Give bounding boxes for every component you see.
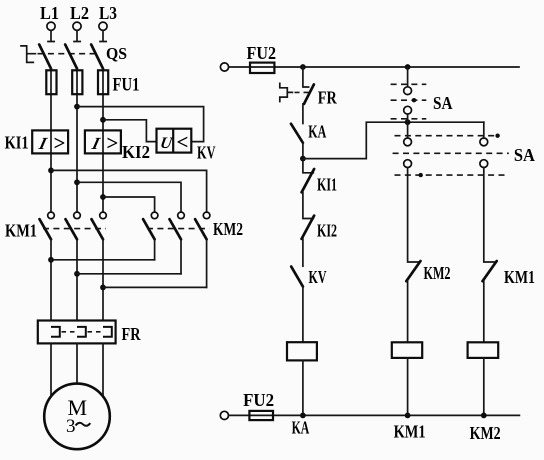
wire SA pole 2 to KM1 contact [484,168,497,263]
wire FR to motor phase 2 [76,343,78,383]
junction merge phase 1 [48,257,54,263]
svg-text:KM2: KM2 [470,423,501,443]
coil KM1 [392,342,422,358]
wire L2 terminal to QS pole 2 [74,30,80,41]
FR heater element 3 [103,327,112,337]
svg-text:KA: KA [292,418,310,438]
svg-text:SA: SA [433,93,453,113]
contactor KM1 pole 3 circle [100,212,107,219]
fuse FU1 pole 1 [46,70,56,94]
thermal relay FR box [38,321,116,344]
wire KM2 pole 3 down [206,239,208,287]
SA upper contact circle B [404,106,412,114]
wire L3 QS to KI2 box [102,69,104,212]
wire merge phase 2 [77,273,181,275]
contactor KM2 pole 3 circle [203,212,210,219]
motor M circle [44,384,110,450]
svg-text:SA: SA [514,145,535,165]
junction KM1 coil at rail [405,413,411,419]
contactor KM1 blade 1 [40,219,52,239]
junction KA coil at rail [300,413,306,419]
SA upper contact circle A [404,87,412,95]
svg-text:KM1: KM1 [5,221,37,241]
svg-text:>: > [54,131,66,155]
switch QS blade 2 [65,45,77,69]
wire L1 terminal to QS pole 1 [48,30,54,41]
svg-text:FU2: FU2 [243,390,274,410]
wire KM2 pole 2 down [180,239,182,273]
coil KM2 [468,342,499,358]
control top rail [229,66,519,68]
junction merge phase 2 [74,271,80,277]
switch QS linkage dashed [38,53,100,55]
coil KA [287,342,317,360]
junction L3 to KM2 branch [100,194,106,200]
terminal L2 [73,22,81,30]
wire KV to KA coil [302,287,304,343]
svg-text:FR: FR [318,88,338,108]
SA lower pole 1 circle B [404,160,412,168]
contactor KM1 pole 1 circle [48,212,55,219]
wire merge phase 1 [51,259,155,261]
svg-text:KM1: KM1 [394,422,426,442]
wire merge phase 3 [103,286,207,288]
wire L3 to KM2 pole 1 [103,197,155,212]
wire SA pole 1 to KM2 contact [408,168,421,263]
svg-text:KI1: KI1 [5,133,29,153]
wire L2 to KM2 pole 2 [77,182,181,212]
FR heater linkage dashed 2 [88,331,102,333]
wire L2 tap to KV right terminal [77,107,204,142]
svg-text:KM1: KM1 [504,267,535,287]
contactor KM2 blade 1 [143,219,155,239]
switch QS handle [21,46,35,63]
fuse FU2 bottom [249,411,273,420]
contact KV blade [291,267,303,287]
motor label tilde [76,423,91,426]
contactor KM2 pole 2 circle [178,212,185,219]
junction L2 to KM2 branch [74,179,80,185]
wire junction to SA row [303,122,484,158]
svg-text:<: < [177,130,189,154]
wire L3 terminal to QS pole 3 [100,30,106,41]
SA lower pole 2 circle B [480,160,488,168]
contactor KM2 linkage dashed [147,228,210,230]
junction L2 KV tap [74,104,80,110]
relay KI2 box [85,130,121,153]
wire KA coil to bottom rail [302,360,304,415]
FR trip actuator [280,83,293,101]
svg-text:FU2: FU2 [247,43,277,63]
wire L2 QS down [76,69,78,212]
switch SA upper dashed top [391,83,427,85]
svg-text:KA: KA [308,122,326,142]
SA lower dashed row 2 [393,152,509,154]
svg-text:>: > [106,131,118,155]
wire SA upper to junction node [407,114,409,138]
contactor KM1 blade 3 [92,219,104,239]
wire KM1 pole 2 down to FR [76,239,78,320]
switch QS blade 1 [39,45,51,69]
junction merge phase 3 [100,285,106,291]
svg-text:KM2: KM2 [213,219,243,239]
svg-text:FU1: FU1 [113,75,140,96]
terminal control top [220,63,228,71]
contactor KM1 pole 2 circle [74,212,81,219]
contact KM1 NC blade [483,261,497,281]
svg-text:L1: L1 [40,3,59,23]
junction KA branch at top rail [300,64,306,70]
FR heater linkage dashed 1 [62,331,76,333]
SA upper dashed bottom [391,118,427,120]
fuse FU2 top [250,63,274,73]
svg-text:3: 3 [66,416,76,437]
switch QS blade 3 [91,45,103,69]
SA lower dashed row 1 [395,135,500,137]
svg-text:KI2: KI2 [317,221,337,241]
svg-text:KM2: KM2 [424,263,451,283]
FR heater element 1 [51,327,60,337]
terminal L1 [47,22,55,30]
wire KM1 pole 3 down to FR [102,239,104,320]
svg-text:L2: L2 [70,3,89,23]
FR actuator linkage dashed [295,91,310,93]
wire KM1 pole 1 down to FR [50,239,52,320]
contact KA blade [291,124,303,143]
wire KM2 pole 1 down [154,239,156,259]
wire KM1 contact to KM2 coil [483,281,485,342]
svg-text:FR: FR [122,324,142,344]
wire L1 to KM2 pole 3 [51,170,207,211]
svg-text:KI2: KI2 [122,142,150,162]
svg-text:L3: L3 [99,3,117,23]
SA lower dashed row 3 [395,174,506,176]
relay KV box divider [172,129,174,153]
fuse FU1 pole 3 [98,70,108,94]
junction L3 KV tap [100,117,106,123]
FR heater element 2 [77,327,86,337]
wire KI1 to KI2 [303,192,313,218]
contact KM2 NC blade [406,261,420,281]
contactor KM2 pole 1 circle [151,212,158,219]
contact FR blade [304,84,314,104]
contactor KM2 blade 2 [170,219,182,239]
SA upper dashed middle [391,99,427,101]
wire L3 tap to KV left terminal [103,120,157,142]
control bottom rail [229,414,520,416]
contactor KM1 linkage dashed [43,228,106,230]
SA lower pole 1 circle A [404,138,412,146]
SA upper position dot [412,98,416,102]
terminal L3 [99,22,107,30]
relay KI1 box [32,130,68,153]
terminal control bottom [220,411,228,419]
contactor KM2 blade 3 [195,219,207,239]
wire top rail to FR contact [303,67,309,87]
contact KI2 control blade [302,216,315,239]
relay KV box [157,129,192,153]
SA lower position dot row 3 [419,173,423,177]
svg-text:KV: KV [197,143,216,163]
junction KM2 coil at rail [481,413,487,419]
wire top rail to SA upper contact [407,67,409,87]
wire FR to motor phase 3 [102,343,104,396]
wire KM1 coil to bottom rail [407,358,409,416]
junction top rail to SA upper [405,64,411,70]
wire FR contact to KA contact [302,104,304,124]
svg-text:KV: KV [309,267,327,287]
wire KM2 coil to bottom rail [483,358,485,416]
SA lower pole 2 circle A [480,138,488,146]
wire SA pole 2 riser [483,122,485,138]
junction L1 to KM2 branch [48,168,54,174]
wire KI2 to KV [302,239,304,266]
junction KA SA node [300,156,306,162]
svg-text:KI1: KI1 [317,175,337,195]
contactor KM1 blade 2 [66,219,78,239]
SA lower position dot row 1 [495,134,499,138]
wire FR to motor phase 1 [50,343,52,396]
fuse FU1 pole 2 [72,70,82,94]
wire L1 QS to KI1 box [50,69,52,212]
contact KI1 control blade [302,169,315,192]
wire KA contact to junction [302,143,304,159]
contact KI1 control bar [303,159,313,173]
wire KM2 contact to KM1 coil [407,281,409,342]
junction SA pole 1 top [405,119,411,125]
svg-text:QS: QS [106,44,127,63]
